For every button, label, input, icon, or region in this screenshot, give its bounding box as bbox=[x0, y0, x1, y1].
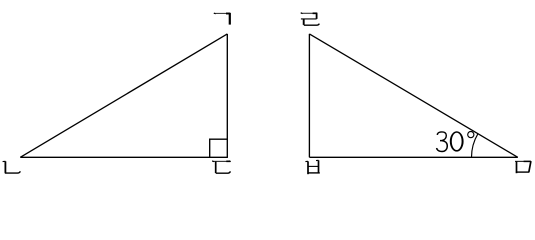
triangle 1 vertical side (side ㄱㄷ) bbox=[226, 34, 228, 157]
vertex label ㄹ (top of triangle 2) bbox=[301, 13, 320, 26]
vertex label ㄷ (bottom-right of triangle 1) bbox=[212, 161, 230, 174]
triangle 1 base (side ㄴㄷ) bbox=[20, 156, 228, 158]
vertex label ㄴ (bottom-left of triangle 1) bbox=[3, 161, 21, 173]
vertex label ㅂ (bottom-left of triangle 2) bbox=[305, 160, 319, 174]
angle arc (30 degrees at vertex ㅁ) bbox=[472, 134, 478, 158]
triangle 2 vertical side (side ㄹㅂ) bbox=[308, 34, 310, 157]
vertex label ㅁ (bottom-right of triangle 2) bbox=[515, 161, 531, 173]
vertex label ㄱ (top of triangle 1) bbox=[214, 13, 231, 25]
right-angle mark at vertex ㄷ bbox=[210, 139, 228, 157]
angle value label 30 : digit 3 bbox=[436, 132, 447, 152]
degree symbol of 30 degrees bbox=[468, 132, 474, 138]
triangle 2 hypotenuse (side ㄹㅁ) bbox=[309, 34, 517, 157]
angle value label 30 : digit 0 bbox=[450, 131, 464, 151]
triangle 1 hypotenuse (side ㄱㄴ) bbox=[20, 34, 227, 157]
triangle 2 base (side ㅂㅁ) bbox=[309, 156, 517, 158]
